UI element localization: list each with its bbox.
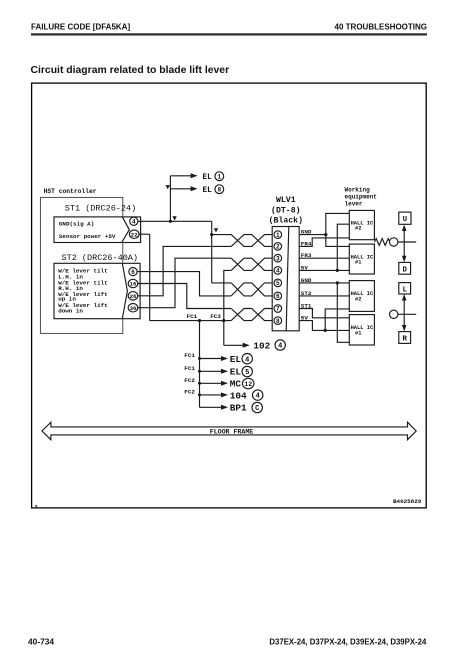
wire pin6 tilt-LH to ST2 row: [137, 272, 231, 296]
diagram frame: [32, 83, 427, 508]
svg-text:EL: EL: [230, 367, 242, 378]
svg-text:4: 4: [245, 356, 249, 364]
wire 5V riser to hall A mid: [337, 224, 349, 270]
svg-text:EL: EL: [203, 174, 213, 182]
wire GND1 to riser: [299, 234, 326, 236]
wire 5V vertical: [149, 234, 151, 320]
svg-text:40 TROUBLESHOOTING: 40 TROUBLESHOOTING: [335, 22, 427, 31]
wire 5V bottom run to WLV1 pin8: [150, 320, 232, 322]
svg-text:ST1 (DRC26-24): ST1 (DRC26-24): [65, 204, 136, 214]
hall IC C box: [349, 281, 374, 312]
wire pin36 lift-down to FR3 row: [137, 258, 231, 308]
wire GND branch to WLV1 pin5: [212, 282, 232, 284]
node junction EL riser: [169, 220, 172, 223]
mark branch arrow at EL8: [166, 185, 170, 189]
node branch 104: [198, 393, 201, 396]
mark branch arrow at pin1 wire: [214, 228, 218, 232]
svg-text:FLOOR FRAME: FLOOR FRAME: [210, 428, 254, 435]
svg-text:8: 8: [217, 187, 221, 194]
pin 16: [128, 279, 138, 287]
svg-text:L: L: [402, 286, 407, 294]
ST2 connector slant: [122, 264, 127, 319]
svg-text:WLV1: WLV1: [276, 196, 296, 205]
connector ST1 box: [54, 217, 141, 243]
svg-text:12: 12: [244, 381, 252, 388]
svg-text:5: 5: [245, 369, 249, 377]
node branch EL5: [198, 370, 201, 373]
svg-text:3: 3: [276, 255, 280, 262]
svg-text:4: 4: [278, 343, 282, 351]
WLV1 slant: [286, 227, 289, 331]
svg-text:4: 4: [276, 268, 280, 275]
svg-text:Circuit diagram related to bla: Circuit diagram related to blade lift le…: [31, 65, 230, 76]
svg-text:FC1: FC1: [184, 352, 195, 359]
label EL 8: [203, 185, 224, 195]
svg-text:ST2 (DRC26-40A): ST2 (DRC26-40A): [62, 253, 139, 263]
hall IC A box: [349, 210, 374, 239]
svg-text:D37EX-24, D37PX-24, D39EX-24,: D37EX-24, D37PX-24, D39EX-24, D39PX-24: [269, 637, 427, 646]
svg-text:MC: MC: [230, 379, 242, 390]
svg-text:4: 4: [132, 219, 136, 226]
box R: [399, 332, 411, 344]
svg-text:2: 2: [276, 244, 280, 251]
wire pin26 lift-up to FR4 row: [137, 246, 231, 295]
lever spring squiggle: [374, 239, 390, 246]
wire FC1 vertical drop: [199, 321, 201, 408]
wire GND5 drop to hall D bottom: [337, 283, 349, 342]
svg-text:FC3: FC3: [210, 313, 221, 320]
svg-text:D: D: [402, 266, 407, 274]
HST controller box: [40, 197, 122, 333]
pin 22: [129, 230, 139, 238]
svg-text:(DT-8): (DT-8): [271, 206, 300, 216]
twisted pair pins 3-4: [231, 258, 272, 270]
svg-text:6: 6: [131, 269, 135, 276]
svg-text:C: C: [255, 405, 259, 413]
svg-text:5: 5: [276, 280, 280, 287]
wire 5V4 to hall B bottom: [299, 269, 349, 271]
svg-text:#2: #2: [355, 226, 361, 232]
wire arrow to EL 4: [200, 356, 229, 361]
label EL 1: [203, 172, 224, 182]
WLV1 pin 3: [274, 254, 282, 262]
wire FR4 to hall A bottom: [299, 238, 349, 247]
wire arrow to 102: [224, 343, 250, 348]
label EL 4: [230, 354, 253, 365]
lever motion arrow U-D: [402, 225, 407, 263]
svg-text:FC2: FC2: [184, 377, 195, 384]
node junction GND5 drop: [336, 281, 339, 284]
wire EL riser vertical: [169, 176, 171, 222]
svg-text:22: 22: [131, 231, 138, 238]
svg-text:R: R: [402, 336, 407, 344]
svg-text:lever: lever: [345, 200, 363, 207]
WLV1 pin 4: [274, 267, 282, 275]
svg-text:BP1: BP1: [230, 403, 247, 414]
floor frame double arrow: [42, 422, 416, 440]
connector WLV1 box: [272, 227, 299, 331]
wire arrow to EL 5: [200, 369, 229, 374]
svg-text:FAILURE CODE [DFA5KA]: FAILURE CODE [DFA5KA]: [31, 22, 130, 31]
pin 6: [129, 268, 137, 276]
svg-text:36: 36: [130, 305, 137, 312]
wire GND5 to hall C top: [299, 282, 349, 284]
wire lever horizontal upper: [398, 241, 416, 243]
pin 26: [128, 292, 138, 300]
svg-text:EL: EL: [203, 187, 213, 195]
node branch EL4: [198, 357, 201, 360]
WLV1 pin 7: [274, 305, 282, 313]
box D: [399, 262, 411, 274]
svg-text:40-734: 40-734: [28, 636, 54, 646]
wire GND riser to hall A top and hall B top: [326, 213, 350, 246]
svg-text:#2: #2: [355, 296, 361, 302]
wire arrow to 104 4: [200, 392, 229, 397]
node junction FC1: [198, 319, 201, 322]
node junction GND pin1: [210, 233, 213, 236]
label BP1 C: [230, 402, 263, 413]
WLV1 pin 1: [274, 231, 282, 239]
twisted pair pins 5-6: [231, 283, 272, 296]
node junction 5V riser: [336, 269, 339, 272]
svg-text:down in: down in: [58, 307, 83, 314]
box U: [399, 212, 411, 224]
wire ST2 to hall C mid: [299, 295, 349, 297]
svg-text:8: 8: [276, 318, 280, 325]
wire arrow to EL 8: [170, 186, 197, 191]
WLV1 pin 6: [274, 292, 282, 300]
header rule: [31, 33, 427, 35]
hall IC B box: [349, 244, 374, 274]
hall IC D box: [349, 315, 374, 345]
node branch MC: [198, 382, 201, 385]
WLV1 pin 2: [274, 243, 282, 251]
lever pivot circle upper: [390, 238, 398, 246]
label MC 12: [230, 378, 254, 389]
wire 5V8 riser to hall C bottom: [325, 309, 349, 331]
wire GND down to pin1 row: [211, 221, 213, 283]
label 102 4: [253, 340, 285, 352]
svg-text:FC1: FC1: [184, 365, 195, 372]
wire pin22 5V horizontal: [139, 233, 150, 235]
lever pivot circle lower: [390, 310, 398, 318]
svg-text:Sensor power +5V: Sensor power +5V: [59, 233, 116, 240]
wire FR3 to hall B mid: [299, 257, 349, 259]
svg-text:#1: #1: [355, 260, 361, 266]
svg-text:(Black): (Black): [269, 216, 303, 226]
wire pin16 tilt-RH to ST1 row: [137, 284, 231, 309]
wire GND to WLV1 pin1: [212, 234, 232, 236]
svg-text:26: 26: [130, 293, 137, 300]
label Working equipment lever: [345, 187, 378, 208]
connector ST2 box: [54, 263, 140, 318]
svg-text:#1: #1: [355, 330, 361, 336]
node junction GND riser: [324, 233, 327, 236]
scan speck: [35, 505, 37, 507]
svg-text:4: 4: [256, 393, 260, 401]
svg-text:FC1: FC1: [187, 313, 198, 320]
wire pin4 GND horizontal: [138, 220, 212, 222]
WLV1 pin 5: [274, 279, 282, 287]
wire arrow to MC 12: [200, 381, 229, 386]
wire 5V riser to WLV1 pin4: [224, 270, 231, 320]
pin 4: [130, 217, 138, 225]
svg-text:U: U: [403, 216, 407, 224]
WLV1 pin 8: [274, 317, 282, 325]
twisted pair pins 1-2: [231, 235, 272, 247]
pin 36: [128, 304, 138, 312]
svg-text:1: 1: [217, 174, 221, 181]
svg-text:16: 16: [130, 281, 137, 288]
twisted pair pins 7-8: [231, 309, 272, 321]
label EL 5: [230, 366, 253, 377]
node junction FC3: [222, 319, 225, 322]
wire FC3 drop to 102: [223, 321, 225, 346]
svg-text:B4025829: B4025829: [393, 498, 422, 505]
svg-text:HST controller: HST controller: [44, 188, 97, 195]
ST1 connector slant: [122, 217, 129, 242]
svg-text:6: 6: [276, 293, 280, 300]
svg-text:7: 7: [276, 306, 280, 313]
wire lever horizontal lower: [398, 313, 416, 315]
label 104 4: [230, 390, 263, 401]
node junction 5V8 riser: [324, 329, 327, 332]
box L: [399, 283, 411, 295]
lever motion arrow L-R: [402, 294, 407, 331]
svg-text:104: 104: [230, 390, 247, 401]
wire 5V8 to hall D mid: [299, 321, 349, 331]
svg-text:1: 1: [276, 232, 280, 239]
mark branch arrow at pin4 wire: [172, 216, 176, 220]
wire arrow to EL 1: [170, 173, 197, 178]
wire ST1 to hall D top: [299, 309, 349, 318]
svg-text:EL: EL: [230, 354, 242, 365]
svg-text:102: 102: [253, 341, 270, 352]
svg-text:FC2: FC2: [184, 389, 195, 396]
wire arrow to BP1 C: [200, 405, 229, 410]
svg-text:GND(sig A): GND(sig A): [59, 220, 94, 227]
